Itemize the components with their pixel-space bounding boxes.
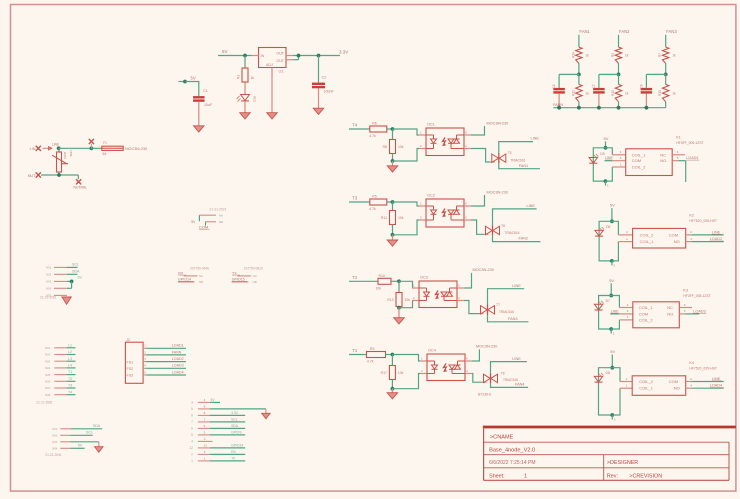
net label SCL <box>72 263 79 267</box>
net label T2 <box>66 377 75 381</box>
node junction <box>577 106 581 110</box>
pin COIL_2 <box>620 377 632 382</box>
pin 1 <box>46 266 67 270</box>
wire <box>386 354 393 356</box>
net label FAN4 <box>515 382 525 386</box>
svg-text:IN: IN <box>261 54 265 58</box>
wire <box>599 368 613 415</box>
wire <box>391 280 399 282</box>
svg-text:C7: C7 <box>592 84 596 88</box>
svg-text:10k: 10k <box>376 286 382 290</box>
svg-text:6: 6 <box>191 427 193 431</box>
net label 5V <box>78 444 83 448</box>
wire <box>244 101 246 113</box>
svg-text:R8: R8 <box>383 145 387 149</box>
net label LINE <box>512 284 521 288</box>
svg-text:FAN1: FAN1 <box>519 164 529 168</box>
pin 7 <box>191 417 210 424</box>
pin NC <box>679 303 692 308</box>
node junction <box>90 146 94 150</box>
wire <box>67 266 78 268</box>
wire <box>611 329 615 336</box>
optocoupler OC2 <box>426 194 464 228</box>
svg-text:A: A <box>204 437 206 441</box>
svg-text:SCL: SCL <box>231 417 238 421</box>
svg-text:3.3V: 3.3V <box>339 50 348 55</box>
capacitor C2 <box>312 76 334 94</box>
wire <box>471 195 485 206</box>
relay K2 <box>633 228 686 248</box>
svg-text:COIL_1: COIL_1 <box>639 386 654 391</box>
pin COIL_2 <box>619 315 632 320</box>
svg-text:1k: 1k <box>625 92 629 96</box>
wire <box>67 287 72 289</box>
svg-text:T3: T3 <box>352 196 358 201</box>
pin 2 <box>52 434 70 438</box>
svg-text:N01: N01 <box>46 266 52 270</box>
net label LINE <box>712 230 722 234</box>
pin 6 <box>464 131 471 136</box>
wire <box>392 154 394 162</box>
net label MOC3M-230 <box>487 122 509 126</box>
pin 4 <box>464 216 471 221</box>
svg-text:N02: N02 <box>52 434 58 438</box>
wire <box>210 408 266 410</box>
wire <box>472 349 479 361</box>
triac T8 <box>484 372 519 384</box>
diode D6 <box>595 225 611 236</box>
connector part number <box>40 296 57 300</box>
net label GPIO14 <box>210 443 245 448</box>
net label FAN1 <box>579 29 590 34</box>
ground <box>313 108 324 114</box>
net label 5V <box>191 76 196 81</box>
wire <box>398 307 400 308</box>
arrow tag <box>43 147 53 151</box>
wire <box>244 56 246 68</box>
net label GPIO15 <box>232 278 247 282</box>
net label FAN2 <box>619 29 630 34</box>
node junction <box>391 200 395 204</box>
net label TX <box>210 456 245 461</box>
wire <box>491 362 527 374</box>
wire <box>593 148 605 181</box>
pin 3 <box>52 440 70 444</box>
svg-text:C1: C1 <box>203 89 208 93</box>
wire <box>491 384 529 388</box>
net label 5V <box>78 276 83 280</box>
pin 5 <box>191 430 210 437</box>
resistor R5 <box>369 195 387 212</box>
capacitor C4 <box>552 84 565 93</box>
svg-text:R3: R3 <box>370 347 374 351</box>
net label SDA <box>72 270 80 274</box>
pin 4 <box>143 364 146 369</box>
svg-text:T5: T5 <box>508 151 512 155</box>
svg-text:HF3FF_005-1ZST: HF3FF_005-1ZST <box>676 141 704 145</box>
pin NO <box>686 384 693 389</box>
wire <box>493 236 541 242</box>
svg-text:GPIO9: GPIO9 <box>231 430 241 434</box>
svg-text:N03: N03 <box>52 440 58 444</box>
pin NO <box>686 237 693 242</box>
wire <box>185 82 199 97</box>
wire <box>179 81 186 83</box>
wire <box>198 102 200 126</box>
svg-text:3: 3 <box>191 401 193 405</box>
svg-text:1k: 1k <box>585 92 589 96</box>
svg-text:C4: C4 <box>552 84 556 88</box>
svg-text:5V: 5V <box>211 398 216 402</box>
svg-text:4.7k: 4.7k <box>369 134 376 138</box>
node junction <box>397 279 401 283</box>
svg-text:LOAD1: LOAD1 <box>686 156 698 160</box>
svg-text:7: 7 <box>191 420 193 424</box>
pin 3 <box>143 357 146 362</box>
net label L1 <box>66 343 75 347</box>
svg-text:L2: L2 <box>68 350 72 354</box>
net label COM <box>199 224 210 229</box>
svg-text:MOC3M-230: MOC3M-230 <box>487 122 509 126</box>
resistor R13 <box>387 293 410 307</box>
net label T3 <box>66 384 75 388</box>
wire <box>606 148 613 155</box>
node junction <box>297 54 301 58</box>
net label LOAD2 <box>710 237 724 241</box>
ground <box>194 126 205 132</box>
net label LINE <box>531 136 540 140</box>
wire <box>578 35 580 47</box>
svg-text:FAN3: FAN3 <box>508 317 518 321</box>
wire <box>392 355 420 362</box>
svg-text:T6: T6 <box>501 224 505 228</box>
svg-text:100nF: 100nF <box>324 90 335 94</box>
net label LOAD4 <box>710 384 724 388</box>
svg-text:RED: RED <box>253 96 257 103</box>
svg-text:5V: 5V <box>609 278 614 283</box>
pin 4 <box>52 447 70 451</box>
svg-text:K2: K2 <box>689 213 694 217</box>
net label LINE <box>527 204 536 208</box>
wire <box>485 233 489 235</box>
net label 3.3V <box>339 50 348 55</box>
optocoupler OC3 <box>419 276 457 308</box>
pin 1 <box>52 427 70 431</box>
svg-text:21-21-2021: 21-21-2021 <box>209 208 226 212</box>
svg-text:N02: N02 <box>45 353 51 357</box>
svg-text:HF3FF_005-1ZST: HF3FF_005-1ZST <box>683 294 711 298</box>
resistor R6 <box>369 122 387 139</box>
wire <box>464 301 480 314</box>
wire <box>392 374 420 389</box>
capacitor C7 <box>592 84 605 93</box>
pin 3 <box>46 280 67 284</box>
svg-text:N05: N05 <box>45 373 51 377</box>
no-connect flag <box>89 139 94 148</box>
wire <box>611 296 619 308</box>
svg-text:T4: T4 <box>352 123 358 128</box>
no-connect flag <box>76 179 81 184</box>
svg-text:COIL_2: COIL_2 <box>639 379 654 384</box>
pin 3 <box>45 359 66 363</box>
pin NA <box>199 213 223 217</box>
wire <box>611 355 613 368</box>
svg-text:T1: T1 <box>352 348 358 353</box>
svg-text:LINE: LINE <box>605 156 613 160</box>
svg-text:N06: N06 <box>45 380 51 384</box>
pin COIL_1 <box>618 237 632 242</box>
net label SDA <box>210 424 245 429</box>
wire <box>691 387 723 389</box>
svg-text:MOC3N-230: MOC3N-230 <box>487 190 508 194</box>
svg-text:COIL_2: COIL_2 <box>632 165 647 170</box>
svg-text:D7: D7 <box>606 299 610 303</box>
svg-text:21-21-2081: 21-21-2081 <box>36 401 53 405</box>
svg-text:FANN: FANN <box>172 350 182 354</box>
net label 5V <box>210 398 220 403</box>
wire <box>612 388 620 415</box>
svg-text:LINE: LINE <box>611 309 619 313</box>
svg-text:K3: K3 <box>683 288 688 292</box>
svg-text:N08: N08 <box>45 393 51 397</box>
wire <box>599 221 612 261</box>
wire <box>391 389 393 393</box>
svg-text:N04: N04 <box>46 287 52 291</box>
wire <box>471 126 485 135</box>
wire <box>349 354 367 356</box>
svg-text:LOAD3: LOAD3 <box>172 364 184 368</box>
svg-text:L4: L4 <box>68 364 72 368</box>
resistor R19 <box>658 74 676 107</box>
node junction <box>577 73 581 77</box>
wire <box>488 315 529 322</box>
wire <box>610 313 619 315</box>
optocoupler OC4 <box>427 349 465 381</box>
pin 8 <box>191 411 210 418</box>
pin NB <box>178 280 203 284</box>
svg-text:5: 5 <box>191 433 193 437</box>
pin COM <box>686 230 693 235</box>
svg-text:>CREVISION: >CREVISION <box>629 473 662 479</box>
node junction <box>617 106 621 110</box>
wire <box>610 283 612 295</box>
pin COIL_1 <box>619 303 632 308</box>
svg-text:SDA: SDA <box>93 424 101 428</box>
pin 5 <box>45 373 66 377</box>
svg-text:N03: N03 <box>46 280 52 284</box>
svg-text:10D5: 10D5 <box>63 151 67 159</box>
value label <box>478 392 491 396</box>
svg-text:10k: 10k <box>398 216 404 220</box>
svg-text:F1: F1 <box>103 141 107 145</box>
pin 8 <box>45 393 66 397</box>
svg-text:R19: R19 <box>658 90 662 96</box>
pin 3 <box>191 398 210 405</box>
resistor R2 <box>611 47 629 63</box>
svg-text:8: 8 <box>191 414 193 418</box>
title Sheet <box>489 473 527 479</box>
svg-text:TRIAC616: TRIAC616 <box>505 231 520 235</box>
ground <box>262 409 270 419</box>
node IN junction <box>243 54 247 58</box>
title block frame <box>483 427 736 480</box>
pin 2 <box>46 273 67 277</box>
node junction <box>397 306 401 310</box>
resistor R10 <box>376 274 392 291</box>
title >CNAME <box>490 435 514 441</box>
wire <box>393 149 420 162</box>
net label GPIO9 <box>210 430 245 435</box>
svg-text:C2: C2 <box>322 76 327 80</box>
pin NB <box>206 220 223 224</box>
wire <box>491 161 495 163</box>
wire <box>67 273 78 275</box>
pin NO <box>672 156 679 161</box>
wire <box>271 68 273 113</box>
node junction <box>610 259 614 263</box>
svg-text:1: 1 <box>191 459 193 463</box>
title date <box>489 460 535 466</box>
pin NC <box>672 150 685 155</box>
net label SCL <box>86 431 93 435</box>
wire <box>646 74 665 88</box>
svg-text:LINE: LINE <box>69 150 73 157</box>
svg-text:TRIAC616: TRIAC616 <box>510 158 525 162</box>
wire <box>399 301 413 308</box>
net label LOAD4 <box>147 370 187 375</box>
net label FAN1 <box>519 164 529 168</box>
node junction <box>604 146 608 150</box>
svg-text:Base_4node_V2.0: Base_4node_V2.0 <box>489 448 535 454</box>
label K3 <box>683 288 711 298</box>
net label 5V (K4) <box>610 349 615 354</box>
svg-text:>DESIGNER: >DESIGNER <box>607 460 638 466</box>
node junction <box>391 159 395 163</box>
ground <box>394 318 405 324</box>
resistor R8 <box>383 140 404 154</box>
wire <box>645 94 647 108</box>
svg-text:OC1: OC1 <box>427 123 435 127</box>
wire <box>398 308 400 318</box>
svg-text:3.3V: 3.3V <box>231 411 239 415</box>
no-connect flag <box>36 172 41 177</box>
node junction <box>604 179 608 183</box>
capacitor C9 <box>639 84 652 93</box>
net label FAN3 <box>508 317 518 321</box>
wire <box>349 201 370 203</box>
wire <box>558 94 560 108</box>
wire <box>599 74 619 88</box>
svg-text:T4: T4 <box>68 390 72 394</box>
pin 4 <box>464 144 471 149</box>
pin COM <box>619 309 632 314</box>
wire <box>392 161 394 166</box>
pin 4 <box>457 296 464 301</box>
svg-text:10uF: 10uF <box>204 103 213 107</box>
label K2 <box>689 213 717 223</box>
optocoupler OC1 <box>426 123 464 156</box>
node junction <box>183 80 187 84</box>
svg-text:NA: NA <box>219 213 223 217</box>
svg-text:TX: TX <box>231 456 236 460</box>
wire <box>67 280 72 282</box>
pin 6 <box>457 284 464 289</box>
svg-text:N01: N01 <box>45 346 51 350</box>
wire <box>691 241 723 243</box>
wire <box>493 209 537 225</box>
svg-text:T1: T1 <box>68 370 72 374</box>
wire <box>391 380 393 389</box>
wire <box>578 63 580 74</box>
svg-text:SDA: SDA <box>231 424 239 428</box>
node junction <box>57 173 61 177</box>
pin 1 <box>143 344 146 349</box>
svg-text:R5: R5 <box>372 195 376 199</box>
pin 2 <box>412 296 419 301</box>
wire <box>483 381 487 383</box>
wire <box>599 296 612 330</box>
svg-text:FAN4: FAN4 <box>515 382 525 386</box>
svg-text:1k: 1k <box>672 92 676 96</box>
svg-text:12: 12 <box>204 443 208 447</box>
wire <box>691 381 723 383</box>
ground <box>62 297 71 304</box>
net label FAN3 <box>666 29 677 34</box>
svg-text:4.7k: 4.7k <box>369 207 376 211</box>
svg-text:LOAD3: LOAD3 <box>693 309 705 313</box>
pin NA <box>237 274 256 278</box>
svg-text:R1: R1 <box>237 75 241 79</box>
svg-text:FAN3: FAN3 <box>666 29 677 34</box>
pin 1 <box>419 202 426 207</box>
wire <box>691 234 723 236</box>
svg-text:K4: K4 <box>689 361 694 365</box>
wire <box>686 313 700 315</box>
diode D5 <box>589 152 605 163</box>
pin COIL_1 <box>620 384 632 389</box>
net label 5V (K3) <box>609 278 614 283</box>
svg-text:K1: K1 <box>676 135 681 139</box>
svg-text:1k: 1k <box>672 54 676 58</box>
node junction <box>664 73 668 77</box>
pin 4 <box>191 437 210 444</box>
pin 1 <box>191 456 210 463</box>
wire <box>71 441 99 443</box>
pin 2 <box>45 353 66 357</box>
wire <box>77 175 79 179</box>
svg-text:MOC3M-230: MOC3M-230 <box>125 147 147 151</box>
net label T4 <box>66 390 75 394</box>
net label GPIO14 <box>178 278 193 282</box>
net label LOAD1 <box>147 344 187 349</box>
svg-text:LOAD4: LOAD4 <box>710 384 722 388</box>
svg-text:COIL_1: COIL_1 <box>639 305 654 310</box>
svg-text:FS3: FS3 <box>127 374 134 378</box>
svg-text:10k: 10k <box>405 298 411 302</box>
svg-text:COIL_1: COIL_1 <box>640 239 655 244</box>
relay K1 <box>626 149 673 176</box>
svg-text:LINE: LINE <box>52 142 59 146</box>
connector part number <box>244 267 264 271</box>
wire <box>41 174 78 176</box>
wire <box>392 225 394 235</box>
node junction <box>57 146 61 150</box>
net label RX <box>210 450 245 455</box>
net label TX <box>232 271 240 275</box>
title Base_4node_V2.0 <box>489 448 535 454</box>
wire <box>318 56 320 83</box>
node junction <box>70 280 74 284</box>
